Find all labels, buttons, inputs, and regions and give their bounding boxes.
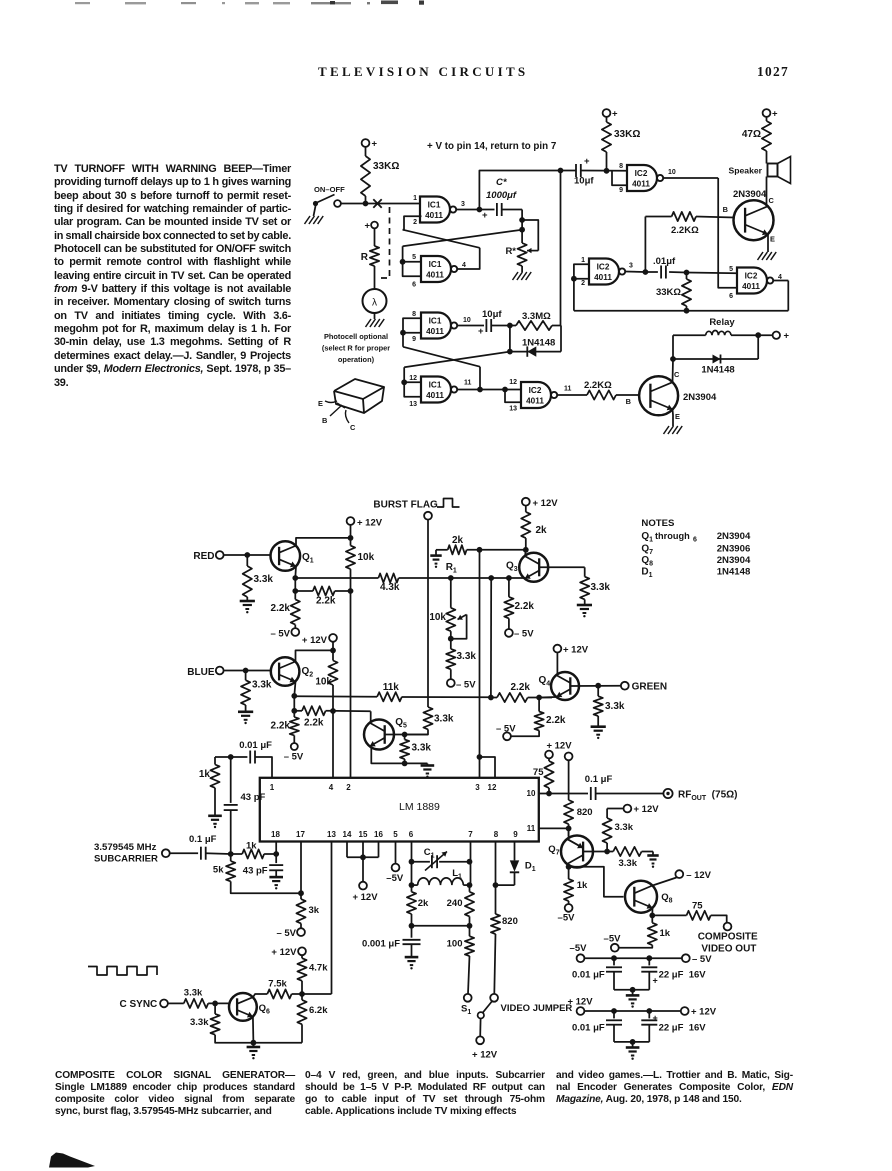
- svg-text:+ 12V: + 12V: [352, 892, 378, 903]
- terminal +12V 820: [565, 753, 573, 761]
- node B junction: [228, 754, 234, 760]
- svg-text:GREEN: GREEN: [632, 682, 668, 693]
- svg-text:5k: 5k: [213, 865, 224, 876]
- svg-text:4011: 4011: [425, 211, 443, 220]
- svg-text:8: 8: [412, 311, 416, 318]
- svg-text:3.3MΩ: 3.3MΩ: [522, 311, 551, 322]
- capacitor 10uf coupling: [575, 164, 577, 177]
- resistor 820 to pin 11: [568, 760, 570, 800]
- terminal + supply left: [362, 139, 370, 147]
- svg-text:+: +: [478, 326, 484, 337]
- resistor 75 RF: [548, 759, 550, 762]
- svg-text:3: 3: [629, 263, 633, 270]
- svg-text:18: 18: [271, 830, 280, 839]
- wire out3 IC2b: [625, 271, 645, 274]
- wire Q3 emitter: [522, 577, 525, 579]
- svg-text:4.7k: 4.7k: [309, 963, 328, 974]
- svg-text:9: 9: [412, 336, 416, 343]
- wire pin 11: [539, 827, 569, 829]
- svg-text:C: C: [674, 370, 680, 379]
- svg-text:10k: 10k: [358, 552, 375, 563]
- svg-text:IC2: IC2: [597, 262, 610, 271]
- wire out3: [456, 209, 479, 211]
- svg-text:2k: 2k: [418, 898, 429, 909]
- resistor 33Kohm left: [361, 156, 370, 196]
- terminal +12V chip: [359, 882, 367, 890]
- svg-text:9: 9: [619, 187, 623, 194]
- transistor Q7 pnp: [561, 836, 593, 868]
- svg-text:2.2k: 2.2k: [316, 596, 336, 607]
- rail 11k: [294, 695, 377, 698]
- svg-text:through: through: [655, 531, 690, 541]
- wire: [606, 117, 608, 122]
- svg-text:2.2k: 2.2k: [271, 603, 291, 614]
- nand gate IC1d pins 12,13,11: [421, 377, 451, 403]
- svg-text:E: E: [770, 235, 775, 244]
- resistor 10k Q2: [328, 661, 337, 686]
- wire Q6 collector: [253, 994, 267, 997]
- ground below driver: [664, 426, 670, 434]
- ground 0.001uF: [405, 956, 419, 959]
- photocell lambda: [363, 289, 387, 313]
- terminal -5V Q8: [611, 944, 619, 952]
- svg-text:+ 12V: + 12V: [271, 947, 297, 958]
- svg-text:0.01 μF: 0.01 μF: [239, 740, 272, 751]
- bottom left corner mark: [49, 1153, 95, 1168]
- wire: [766, 177, 768, 207]
- svg-text:1N4148: 1N4148: [701, 365, 734, 376]
- ground below R*: [513, 272, 519, 280]
- svg-text:–5V: –5V: [604, 934, 622, 945]
- svg-text:+ 12V: + 12V: [567, 997, 593, 1008]
- resistor 3.3k BLUE bias: [245, 671, 247, 681]
- resistor 240: [465, 892, 474, 917]
- node A junction: [228, 851, 234, 857]
- wire out10: [457, 325, 484, 327]
- ground below switch: [314, 206, 316, 216]
- resistor 100: [469, 926, 471, 936]
- svg-text:operation): operation): [338, 355, 375, 364]
- terminal relay +: [773, 332, 780, 339]
- terminal -5V 3k: [297, 928, 305, 936]
- svg-text:RFOUT (75Ω): RFOUT (75Ω): [678, 790, 737, 803]
- svg-text:Q7: Q7: [548, 844, 559, 857]
- resistor 2.2k Q3 to -5V: [508, 578, 510, 597]
- junction rail A: [448, 575, 454, 581]
- svg-text:IC2: IC2: [529, 386, 542, 395]
- terminal C SYNC: [160, 1000, 168, 1008]
- svg-text:+: +: [372, 139, 378, 150]
- wire pin 5: [395, 842, 397, 864]
- terminal +12V Q7: [624, 805, 632, 813]
- svg-text:3.3k: 3.3k: [605, 701, 625, 712]
- svg-text:2.2k: 2.2k: [304, 718, 324, 729]
- svg-text:+: +: [365, 221, 371, 232]
- svg-text:3.3k: 3.3k: [434, 714, 454, 725]
- wire to pin 1: [255, 757, 272, 778]
- terminal +12V Q3: [522, 498, 530, 506]
- wire Q1 collector: [296, 538, 351, 546]
- resistor 1k Q7 emitter: [568, 867, 570, 879]
- svg-text:12: 12: [409, 375, 417, 382]
- svg-text:BURST FLAG: BURST FLAG: [373, 500, 438, 511]
- wire pin3 vertical: [479, 550, 481, 757]
- resistor 2k tank: [407, 892, 416, 914]
- wire Q5 base line: [385, 734, 428, 736]
- wire tank bottom: [412, 925, 470, 927]
- wire: [224, 554, 271, 556]
- svg-text:+ 12V: + 12V: [302, 635, 328, 646]
- svg-text:4011: 4011: [742, 282, 760, 291]
- input tie IC1c: [403, 318, 421, 332]
- nand gate IC2d pins 12,13,11: [521, 382, 551, 408]
- wire pin 6: [411, 842, 413, 886]
- svg-text:VIDEO JUMPER: VIDEO JUMPER: [501, 1003, 573, 1014]
- wire Q3 collector entry: [524, 550, 527, 556]
- svg-text:820: 820: [577, 807, 593, 818]
- resistor 1k Q8: [651, 915, 653, 922]
- svg-text:– 5V: – 5V: [456, 680, 476, 691]
- terminal -5V 1k: [565, 904, 573, 912]
- nand gate IC2a pins 8,9,10: [627, 165, 657, 191]
- wire: [374, 229, 376, 247]
- svg-text:5: 5: [393, 830, 398, 839]
- svg-text:D1: D1: [525, 861, 536, 874]
- svg-text:2k: 2k: [536, 525, 548, 536]
- svg-text:3.3k: 3.3k: [190, 1017, 209, 1028]
- svg-text:+: +: [772, 109, 778, 120]
- wire Q6 emitter: [252, 1017, 255, 1043]
- svg-text:C SYNC: C SYNC: [120, 999, 158, 1010]
- svg-text:Photocell optional: Photocell optional: [324, 332, 388, 341]
- svg-text:LM 1889: LM 1889: [399, 801, 440, 813]
- svg-text:1k: 1k: [660, 928, 671, 939]
- svg-text:Speaker: Speaker: [729, 166, 763, 176]
- svg-text:+ 12V: + 12V: [472, 1050, 498, 1061]
- svg-text:5: 5: [412, 254, 416, 261]
- bottom feedback rail: [574, 310, 788, 312]
- ground bypass2: [626, 1046, 640, 1049]
- svg-text:B: B: [626, 397, 631, 406]
- caption column 3: [0, 0, 892, 1]
- svg-text:6.2k: 6.2k: [309, 1005, 328, 1016]
- svg-text:4.3k: 4.3k: [380, 582, 400, 593]
- terminal -5V Q4: [503, 732, 511, 740]
- terminal -5V BLUE: [291, 743, 298, 750]
- svg-text:0.001 μF: 0.001 μF: [362, 939, 400, 950]
- svg-text:– 5V: – 5V: [284, 752, 304, 763]
- terminal S1 contact: [464, 994, 472, 1002]
- svg-text:+: +: [612, 109, 618, 120]
- transistor 2N3904 beep: [734, 200, 774, 240]
- svg-text:75: 75: [692, 901, 703, 912]
- svg-text:1N4148: 1N4148: [717, 567, 751, 578]
- svg-text:+ 12V: + 12V: [691, 1007, 717, 1018]
- svg-text:1: 1: [413, 195, 417, 202]
- transistor Q8: [625, 881, 657, 913]
- svg-text:E: E: [318, 399, 323, 408]
- svg-text:+ V to pin 14, return to pin 7: + V to pin 14, return to pin 7: [427, 141, 557, 152]
- svg-text:ON–OFF: ON–OFF: [314, 185, 345, 194]
- wire bypass1 common: [614, 989, 649, 991]
- svg-text:+ 12V: + 12V: [563, 645, 589, 656]
- diode 1N4148 relay: [673, 358, 758, 360]
- resistor 4.3k: [378, 573, 398, 582]
- resistor 3.3k Q7 up: [606, 843, 608, 852]
- svg-text:22 μF 16V: 22 μF 16V: [659, 970, 707, 981]
- terminal -5V pin5: [392, 864, 400, 872]
- svg-text:Q4: Q4: [539, 675, 551, 688]
- svg-text:2N3904: 2N3904: [733, 189, 767, 200]
- terminal +12V Q4: [554, 645, 562, 653]
- svg-text:6: 6: [729, 293, 733, 300]
- page header: [318, 64, 528, 80]
- svg-text:13: 13: [327, 830, 336, 839]
- resistor 10k Q1: [350, 538, 352, 546]
- wire Q2 emitter: [294, 682, 295, 696]
- wire pin 17: [300, 842, 302, 894]
- svg-text:R*: R*: [505, 246, 516, 257]
- wire Q2 collector: [296, 650, 334, 661]
- svg-text:Q1: Q1: [302, 552, 314, 565]
- svg-text:1k: 1k: [199, 769, 211, 780]
- svg-text:6: 6: [693, 537, 697, 544]
- svg-text:0.01 μF: 0.01 μF: [572, 970, 605, 981]
- svg-text:(select R for proper: (select R for proper: [322, 344, 390, 353]
- wire Q3 base to 3.3k: [539, 566, 585, 568]
- switch S1: [490, 994, 498, 1002]
- wire pin2 line: [350, 591, 352, 778]
- transistor 2N3904 relay driver: [639, 376, 678, 415]
- svg-text:Q2: Q2: [302, 666, 314, 679]
- rail vertical right: [560, 171, 562, 326]
- svg-text:Q8: Q8: [661, 892, 672, 905]
- wire Q8 collector to -12V: [653, 878, 677, 886]
- resistor 3.3k burst to Q5: [423, 707, 432, 729]
- svg-text:C: C: [769, 196, 775, 205]
- wire Q5 emitter: [371, 747, 404, 764]
- svg-text:B: B: [322, 416, 327, 425]
- wire: [224, 670, 271, 672]
- ground Q3 base: [577, 604, 592, 607]
- svg-text:10μf: 10μf: [574, 176, 594, 187]
- svg-text:4011: 4011: [594, 273, 612, 282]
- svg-text:1k: 1k: [577, 880, 588, 891]
- svg-text:7: 7: [468, 830, 473, 839]
- resistor 3.3k pot to -5V: [446, 649, 455, 669]
- svg-text:3: 3: [475, 783, 480, 792]
- svg-text:0.01 μF: 0.01 μF: [572, 1023, 605, 1034]
- svg-text:100: 100: [447, 939, 463, 950]
- svg-text:2N3906: 2N3906: [717, 544, 751, 555]
- svg-text:1: 1: [581, 257, 585, 264]
- svg-text:IC1: IC1: [429, 380, 442, 389]
- svg-text:– 5V: – 5V: [692, 954, 712, 965]
- svg-text:3: 3: [461, 201, 465, 208]
- svg-text:2.2k: 2.2k: [511, 682, 531, 693]
- svg-text:11: 11: [564, 386, 572, 393]
- svg-text:VIDEO OUT: VIDEO OUT: [701, 944, 756, 955]
- svg-text:6: 6: [409, 830, 414, 839]
- wire Q4 base entry: [539, 696, 556, 699]
- svg-text:6: 6: [412, 282, 416, 289]
- caption column 2: [0, 0, 892, 1]
- svg-text:10k: 10k: [315, 677, 332, 688]
- ground R1: [435, 550, 437, 556]
- wire: [606, 152, 608, 171]
- nand gate IC2c pins 5,6,4: [737, 268, 767, 294]
- wire pin 9: [514, 842, 516, 861]
- wire: [557, 394, 587, 396]
- resistor 47ohm: [763, 109, 771, 117]
- svg-text:240: 240: [447, 898, 463, 909]
- terminal +12V Q1: [347, 517, 355, 525]
- svg-text:+: +: [653, 1013, 658, 1023]
- svg-text:–5V: –5V: [570, 943, 588, 954]
- input tie IC2b: [574, 264, 589, 278]
- wire out4 IC2c: [773, 280, 788, 282]
- left text paragraph: [0, 0, 892, 1]
- wire Q7 collector out: [567, 864, 568, 867]
- wire 1N4148 branch: [509, 326, 511, 352]
- resistor 3.3k Q7 right: [607, 851, 613, 853]
- svg-text:C: C: [350, 423, 356, 432]
- wire to pin5 IC2c: [687, 272, 738, 275]
- svg-text:10: 10: [527, 789, 536, 798]
- svg-text:4011: 4011: [426, 391, 444, 400]
- wire collector: [672, 335, 675, 382]
- svg-text:C1: C1: [424, 847, 435, 860]
- wire Q6 bottom rail: [253, 1042, 302, 1044]
- svg-text:2.2k: 2.2k: [546, 715, 566, 726]
- IC LM1889: [260, 778, 539, 842]
- svg-text:S1: S1: [461, 1004, 471, 1017]
- transistor Q3: [519, 553, 548, 582]
- svg-text:B: B: [723, 205, 728, 214]
- junction rail top: [558, 168, 564, 174]
- wire: [365, 196, 367, 203]
- svg-text:13: 13: [509, 406, 517, 413]
- svg-text:+: +: [784, 331, 790, 342]
- svg-text:10μf: 10μf: [482, 309, 502, 320]
- svg-text:Q3: Q3: [506, 561, 518, 574]
- svg-text:15: 15: [359, 830, 368, 839]
- terminal RF out: [663, 789, 672, 798]
- svg-text:3.3k: 3.3k: [619, 858, 638, 869]
- wire rail A to 11k rail: [490, 578, 492, 698]
- wire out11: [457, 389, 505, 391]
- svg-text:9: 9: [513, 830, 518, 839]
- wire: [341, 203, 420, 205]
- svg-text:3k: 3k: [309, 905, 320, 916]
- input tie IC2d: [505, 389, 521, 391]
- nand gate IC2b pins 1,2,3: [589, 259, 619, 285]
- svg-text:– 5V: – 5V: [496, 724, 516, 735]
- svg-text:Q6: Q6: [259, 1003, 270, 1016]
- wire pin 12 jog: [477, 754, 483, 760]
- svg-text:.01μf: .01μf: [653, 256, 676, 267]
- resistor 2k Q3 collector: [525, 506, 527, 512]
- terminal -5V pot: [447, 679, 455, 687]
- wire pin4 line: [332, 711, 334, 778]
- wire pin 7: [470, 842, 472, 886]
- wire Q7 to Q8 base: [569, 867, 624, 897]
- svg-text:2: 2: [346, 783, 351, 792]
- potentiometer R: [370, 246, 379, 266]
- caption column 1: [0, 0, 892, 1]
- svg-text:D1: D1: [641, 567, 652, 580]
- svg-text:8: 8: [494, 830, 499, 839]
- cross-coupling wires IC1a/IC1b: [403, 216, 422, 230]
- svg-text:75: 75: [533, 767, 544, 778]
- wire pin 18: [275, 842, 277, 855]
- svg-text:11: 11: [464, 380, 472, 387]
- svg-text:12: 12: [488, 783, 497, 792]
- svg-text:11k: 11k: [383, 682, 400, 693]
- wire Q8 emitter: [651, 908, 653, 915]
- svg-text:– 5V: – 5V: [276, 928, 296, 939]
- resistor 11k: [377, 692, 402, 701]
- cross-coupling wires IC1c/IC1d: [402, 333, 404, 347]
- svg-text:Q1: Q1: [641, 531, 653, 544]
- terminal -5V RED: [291, 628, 299, 636]
- wire: [374, 266, 376, 289]
- svg-text:3.3k: 3.3k: [591, 582, 611, 593]
- svg-text:5: 5: [729, 266, 733, 273]
- svg-text:C*: C*: [496, 177, 508, 188]
- nand gate IC1c pins 8,9,10: [421, 313, 451, 339]
- svg-text:2.2KΩ: 2.2KΩ: [671, 225, 699, 236]
- svg-text:14: 14: [343, 830, 352, 839]
- svg-text:10: 10: [668, 169, 676, 176]
- resistor 2.2k BLUE feedback: [294, 710, 302, 712]
- svg-text:22 μF 16V: 22 μF 16V: [659, 1023, 707, 1034]
- resistor 6.2k: [301, 994, 303, 1000]
- svg-text:11: 11: [527, 824, 536, 833]
- svg-text:3.3k: 3.3k: [254, 574, 274, 585]
- svg-text:R1: R1: [446, 562, 457, 575]
- svg-text:IC1: IC1: [429, 260, 442, 269]
- nand gate IC1b pins 5,6,4: [421, 256, 451, 282]
- svg-text:820: 820: [502, 916, 518, 927]
- wire C* node vertical: [521, 210, 523, 244]
- svg-text:4: 4: [329, 783, 334, 792]
- ground RED bias: [240, 600, 255, 603]
- svg-text:SUBCARRIER: SUBCARRIER: [94, 854, 158, 865]
- wire emitter: [672, 409, 675, 426]
- svg-text:+ 12V: + 12V: [357, 518, 383, 529]
- resistor 1k node B: [215, 756, 231, 758]
- ground GREEN: [591, 725, 606, 728]
- terminal +12V Q2: [329, 634, 337, 642]
- svg-text:8: 8: [619, 163, 623, 170]
- svg-text:+ 12V: + 12V: [533, 498, 559, 509]
- svg-text:2.2k: 2.2k: [515, 601, 535, 612]
- transistor Q1: [271, 541, 301, 571]
- terminal composite video out: [724, 923, 732, 931]
- svg-text:43 pF: 43 pF: [243, 866, 268, 877]
- terminal BURST FLAG: [424, 512, 432, 520]
- svg-text:– 5V: – 5V: [514, 629, 534, 640]
- resistor 2.2k RED to -5V: [291, 599, 300, 624]
- terminal 75 top: [545, 751, 553, 759]
- resistor 3.3k Q5 lower: [404, 735, 406, 740]
- wire burst flag line: [427, 520, 429, 707]
- ground Q7: [649, 851, 653, 853]
- svg-text:– 12V: – 12V: [686, 870, 711, 881]
- wire to S1: [468, 956, 470, 994]
- resistor 33Kohm mid: [602, 122, 611, 152]
